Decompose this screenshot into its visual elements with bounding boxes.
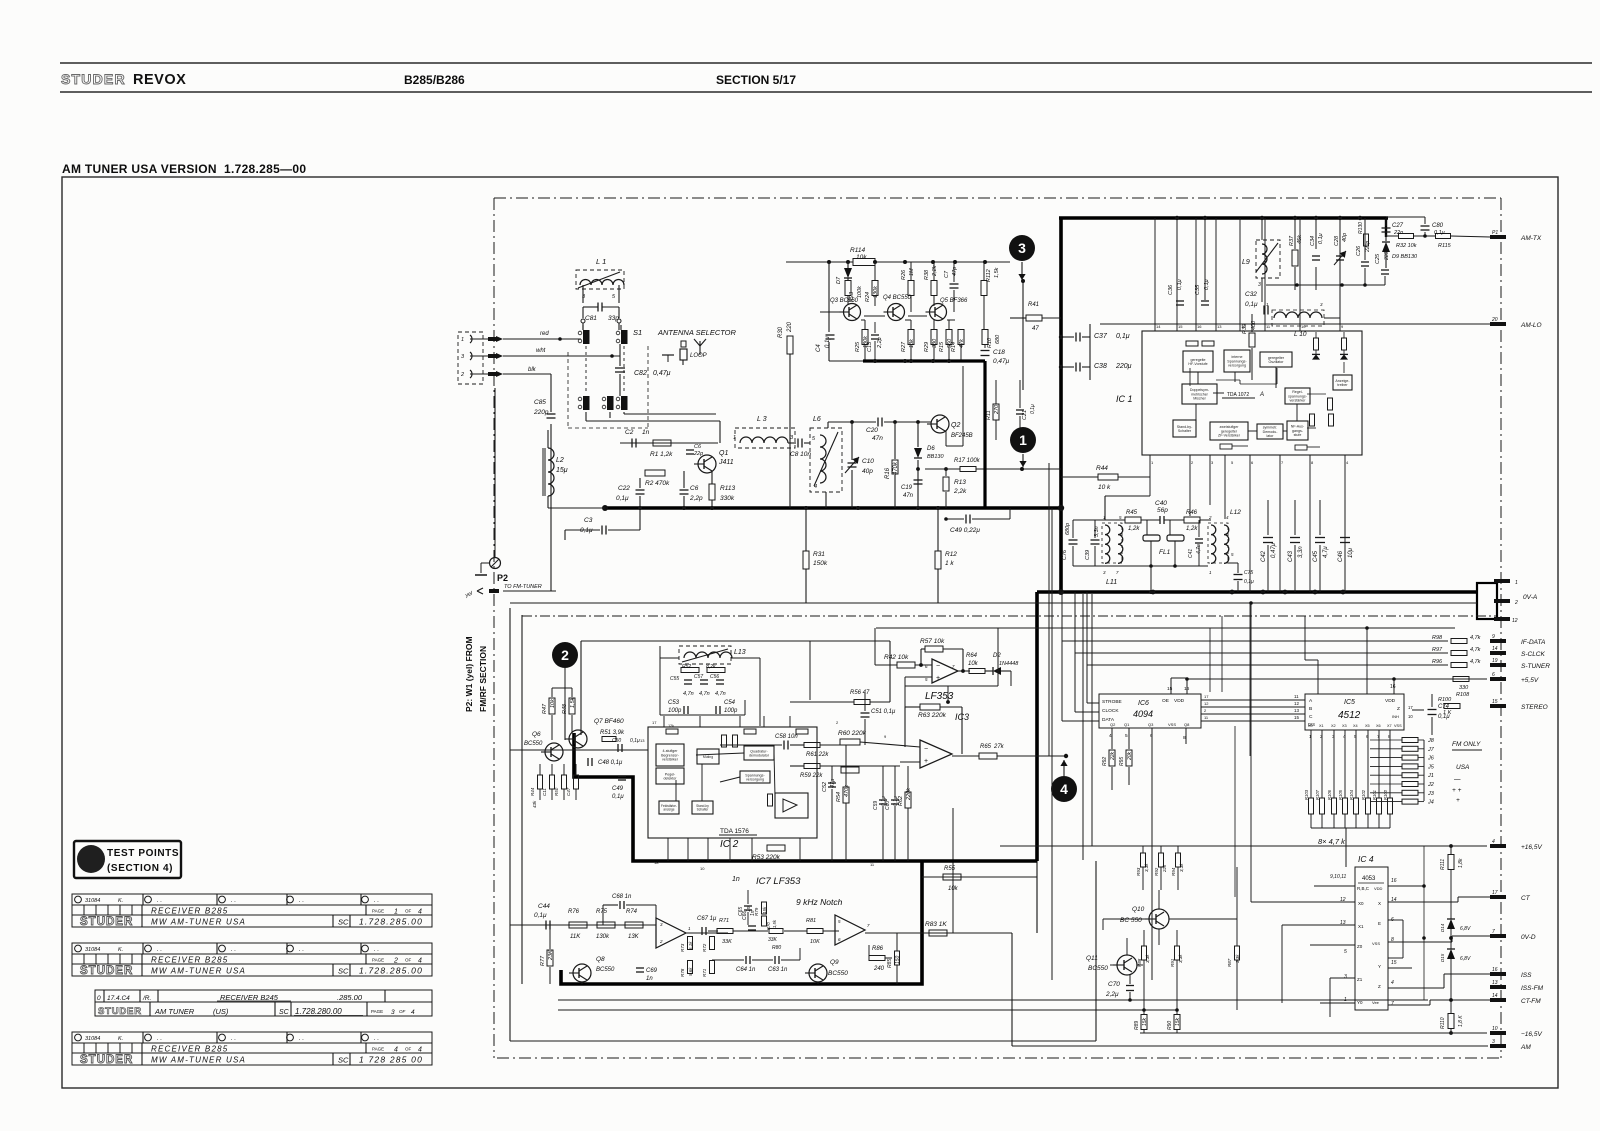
svg-text:4: 4 [418, 1047, 422, 1054]
svg-text:3,3k: 3,3k [1235, 954, 1240, 963]
svg-text:Q2: Q2 [951, 422, 960, 429]
svg-text:Schalter: Schalter [697, 808, 710, 812]
svg-text:P1: P1 [1492, 230, 1498, 236]
svg-text:R53 220k: R53 220k [752, 854, 781, 861]
svg-text:C55: C55 [670, 676, 679, 682]
svg-text:4094: 4094 [1133, 709, 1153, 719]
svg-text:C64 1n: C64 1n [736, 967, 756, 973]
svg-text:3: 3 [1320, 302, 1323, 307]
svg-text:56p: 56p [1157, 507, 1168, 514]
svg-text:4,7n: 4,7n [699, 691, 710, 697]
svg-text:C32: C32 [1245, 291, 1257, 298]
svg-text:3: 3 [1018, 240, 1026, 256]
svg-text:AM TUNER: AM TUNER [154, 1007, 195, 1016]
svg-text:0,1μ: 0,1μ [1030, 404, 1036, 414]
svg-text:FL1: FL1 [1159, 549, 1171, 556]
svg-text:C66: C66 [742, 911, 748, 920]
svg-text:Z: Z [1397, 706, 1400, 712]
svg-text:C22: C22 [618, 485, 630, 492]
svg-text:C56: C56 [710, 674, 719, 680]
svg-text:1: 1 [461, 337, 464, 343]
svg-text:17.4.C4: 17.4.C4 [107, 995, 130, 1002]
svg-text:4: 4 [411, 1009, 415, 1016]
svg-text:BC550: BC550 [1088, 965, 1108, 972]
svg-text:8: 8 [1388, 734, 1391, 739]
svg-text:15k: 15k [1142, 1017, 1148, 1026]
svg-text:R32 10k: R32 10k [1396, 243, 1417, 249]
svg-text:TDA 1072: TDA 1072 [1227, 392, 1249, 398]
svg-text:C: C [1309, 714, 1313, 720]
svg-text:17: 17 [1204, 694, 1209, 699]
svg-text:J1: J1 [1427, 773, 1434, 779]
svg-text:P2: W1 (yel) FROM: P2: W1 (yel) FROM [464, 636, 474, 712]
svg-text:1: 1 [688, 926, 691, 931]
svg-text:red: red [540, 331, 549, 337]
svg-text:C18: C18 [993, 349, 1005, 356]
svg-text:22k: 22k [1162, 864, 1167, 873]
svg-text:L12: L12 [1230, 509, 1241, 516]
svg-text:4,7k: 4,7k [1470, 647, 1481, 653]
svg-text:10 k: 10 k [1098, 484, 1111, 491]
svg-text:7: 7 [867, 923, 870, 928]
svg-text:10k: 10k [856, 254, 867, 261]
svg-text:J8: J8 [1427, 738, 1435, 744]
svg-text:J3: J3 [1427, 791, 1435, 797]
svg-text:11K: 11K [570, 934, 581, 940]
svg-text:X2: X2 [1331, 724, 1336, 728]
svg-text:−16,5V: −16,5V [1521, 1031, 1542, 1038]
svg-text:S-CLCK: S-CLCK [1521, 651, 1546, 658]
svg-text:C28: C28 [1334, 235, 1340, 246]
svg-text:. .: . . [231, 1036, 236, 1042]
svg-text:IC7 LF353: IC7 LF353 [756, 876, 801, 887]
svg-text:P2: P2 [497, 573, 508, 583]
svg-text:C13: C13 [867, 341, 873, 352]
svg-text:13: 13 [640, 738, 645, 743]
svg-text:R54: R54 [836, 792, 842, 802]
svg-text:. .: . . [299, 1036, 304, 1042]
svg-text:13: 13 [1217, 324, 1222, 329]
svg-text:R26: R26 [901, 269, 907, 280]
svg-text:Q8: Q8 [596, 956, 605, 963]
svg-text:STUDER: STUDER [80, 965, 133, 977]
svg-text:AM-LO: AM-LO [1520, 322, 1542, 329]
svg-text:R112: R112 [986, 269, 992, 282]
svg-text:R17 100k: R17 100k [954, 458, 981, 464]
svg-text:OF: OF [405, 909, 412, 914]
svg-text:6: 6 [1492, 672, 1495, 678]
svg-text:4: 4 [394, 1047, 398, 1054]
svg-text:ZF-Verstärker: ZF-Verstärker [1218, 434, 1241, 438]
svg-text:STUDER: STUDER [98, 1006, 142, 1017]
svg-text:Q6: Q6 [532, 731, 541, 738]
svg-text:L2: L2 [556, 457, 564, 464]
svg-text:C36: C36 [1168, 284, 1174, 295]
svg-text:AM-TX: AM-TX [1520, 235, 1542, 242]
svg-text:STEREO: STEREO [1521, 704, 1548, 711]
svg-text:J7: J7 [1427, 747, 1435, 753]
svg-text:1 728 285 00: 1 728 285 00 [359, 1055, 423, 1065]
svg-text:PAGE: PAGE [372, 958, 384, 963]
svg-text:C46: C46 [1338, 550, 1344, 562]
svg-text:2: 2 [836, 720, 839, 725]
svg-text:Muting: Muting [703, 755, 713, 759]
svg-text:Q10: Q10 [1132, 906, 1145, 913]
svg-text:C63 1n: C63 1n [768, 967, 788, 973]
svg-text:R92: R92 [1154, 867, 1159, 876]
svg-text:4: 4 [1343, 734, 1346, 739]
svg-text:R91: R91 [1170, 958, 1175, 967]
svg-text:4053: 4053 [1362, 876, 1376, 882]
svg-text:J6: J6 [1427, 756, 1435, 762]
svg-text:4: 4 [1346, 460, 1349, 465]
svg-text:13k: 13k [909, 339, 915, 348]
svg-text:31084: 31084 [85, 898, 100, 904]
svg-text:C7: C7 [944, 270, 950, 278]
svg-text:HF-Vorstufe: HF-Vorstufe [1188, 362, 1207, 366]
svg-text:BB130: BB130 [927, 454, 944, 460]
svg-text:C38: C38 [1094, 363, 1107, 370]
svg-text:0,1μ: 0,1μ [630, 738, 640, 744]
svg-text:2,2p: 2,2p [689, 495, 703, 502]
svg-text:15k: 15k [1175, 1017, 1181, 1026]
svg-text:R16: R16 [885, 467, 891, 479]
svg-text:R37: R37 [1289, 235, 1295, 246]
svg-text:R73: R73 [680, 943, 685, 952]
svg-text:R65: R65 [980, 744, 992, 750]
svg-text:D9 BB130: D9 BB130 [1392, 254, 1418, 260]
svg-text:C26: C26 [1356, 245, 1362, 256]
svg-text:10μ: 10μ [1348, 547, 1354, 558]
svg-text:R57 10k: R57 10k [920, 638, 945, 645]
svg-text:R102: R102 [1361, 789, 1366, 800]
svg-text:2: 2 [1320, 734, 1323, 739]
svg-text:15: 15 [1294, 715, 1300, 720]
svg-text:—: — [1453, 776, 1461, 783]
svg-text:R11: R11 [986, 410, 992, 420]
svg-text:Schalter: Schalter [1178, 429, 1192, 433]
svg-text:20k: 20k [1127, 751, 1133, 761]
svg-text:3: 3 [790, 435, 794, 441]
svg-text:Q8: Q8 [1184, 722, 1190, 727]
svg-text:5,6k: 5,6k [688, 967, 693, 976]
svg-text:1,2k: 1,2k [1128, 526, 1140, 532]
svg-text:22k: 22k [1110, 751, 1116, 761]
svg-text:R24: R24 [865, 292, 871, 302]
svg-text:CT-FM: CT-FM [1521, 998, 1541, 1005]
svg-text:R90: R90 [1167, 1021, 1173, 1030]
svg-text:R78: R78 [680, 968, 685, 977]
svg-text:Q11: Q11 [1086, 955, 1098, 962]
svg-text:R42 10k: R42 10k [884, 654, 909, 661]
svg-text:100p: 100p [668, 708, 682, 714]
svg-text:versorgung: versorgung [746, 777, 764, 781]
svg-text:1: 1 [1309, 734, 1312, 739]
svg-text:REVOX: REVOX [133, 72, 186, 88]
svg-text:47: 47 [1032, 326, 1039, 332]
svg-text:R113: R113 [720, 485, 735, 492]
svg-text:TEST POINTS: TEST POINTS [107, 848, 179, 859]
svg-text:Q2: Q2 [1110, 722, 1116, 727]
svg-text:1,5k: 1,5k [994, 267, 1000, 278]
svg-text:6: 6 [1251, 460, 1254, 465]
svg-text:4: 4 [1391, 980, 1394, 986]
svg-text:BC550: BC550 [524, 741, 543, 747]
svg-text:OF: OF [399, 1009, 406, 1014]
svg-text:R55: R55 [944, 866, 956, 872]
svg-text:R50: R50 [554, 787, 559, 796]
svg-text:1.728.285.00: 1.728.285.00 [359, 917, 423, 927]
svg-text:R98: R98 [1432, 635, 1443, 641]
svg-text:Z: Z [1378, 984, 1381, 989]
svg-text:K.: K. [118, 898, 123, 904]
svg-text:5,1k: 5,1k [688, 941, 693, 950]
svg-text:R95: R95 [1119, 757, 1125, 766]
svg-text:0,1μ: 0,1μ [1434, 230, 1445, 236]
svg-text:10: 10 [1408, 714, 1413, 719]
svg-text:USA: USA [1456, 764, 1469, 771]
svg-text:C49 0,22μ: C49 0,22μ [950, 527, 980, 534]
svg-text:13: 13 [1492, 980, 1498, 986]
svg-text:33p: 33p [608, 315, 619, 322]
svg-text:MW AM-TUNER USA: MW AM-TUNER USA [151, 1056, 246, 1065]
svg-text:(US): (US) [213, 1007, 229, 1016]
svg-text:2,2k: 2,2k [932, 265, 938, 277]
svg-text:2: 2 [659, 939, 663, 944]
svg-text:C45: C45 [1313, 550, 1319, 562]
svg-text:1n: 1n [646, 976, 653, 982]
svg-text:R89: R89 [1134, 1021, 1140, 1030]
svg-text:2: 2 [1204, 708, 1207, 713]
svg-text:R83 1K: R83 1K [925, 921, 947, 928]
svg-text:9: 9 [1341, 324, 1344, 329]
svg-text:FM ONLY: FM ONLY [1452, 741, 1481, 748]
svg-text:Q3 BC560: Q3 BC560 [830, 298, 859, 304]
svg-text:A: A [1309, 698, 1313, 704]
svg-text:R87: R87 [1227, 958, 1232, 967]
svg-text:RECEIVER B285: RECEIVER B285 [151, 907, 228, 916]
svg-text:13K: 13K [628, 934, 640, 940]
svg-text:+: + [1456, 797, 1460, 804]
svg-text:OF: OF [405, 1047, 412, 1052]
svg-text:R114: R114 [850, 247, 865, 254]
svg-text:12: 12 [1294, 701, 1300, 706]
svg-text:47n: 47n [903, 493, 914, 499]
svg-text:R15: R15 [939, 341, 945, 352]
svg-text:yel: yel [464, 591, 474, 600]
svg-text:D15: D15 [1440, 953, 1445, 962]
svg-text:4: 4 [814, 484, 817, 490]
svg-text:330: 330 [1459, 685, 1469, 691]
svg-text:E: E [1378, 921, 1381, 926]
svg-text:VDD: VDD [1174, 698, 1185, 704]
svg-text:12: 12 [1512, 618, 1518, 624]
svg-text:9,10,11: 9,10,11 [1330, 874, 1347, 880]
svg-text:PAGE: PAGE [372, 1047, 384, 1052]
svg-text:X: X [1378, 901, 1381, 906]
svg-text:14: 14 [1492, 993, 1498, 999]
svg-text:R14: R14 [951, 342, 957, 352]
svg-text:C27: C27 [1392, 223, 1404, 229]
svg-text:R56 47: R56 47 [850, 690, 870, 696]
svg-text:versorgung: versorgung [1228, 364, 1246, 368]
svg-text:27k: 27k [993, 744, 1005, 750]
svg-text:MW AM-TUNER USA: MW AM-TUNER USA [151, 918, 246, 927]
svg-text:stufe: stufe [1294, 433, 1302, 437]
svg-text:C57: C57 [694, 674, 703, 680]
svg-text:X0: X0 [1308, 724, 1313, 728]
svg-text:3: 3 [461, 354, 465, 360]
svg-text:wht: wht [536, 348, 546, 354]
svg-text:C20: C20 [866, 427, 878, 434]
svg-text:R93: R93 [1136, 867, 1141, 876]
svg-text:VDD: VDD [1385, 698, 1396, 704]
svg-text:47p: 47p [952, 267, 958, 276]
svg-text:1.728.285.00: 1.728.285.00 [359, 966, 423, 976]
svg-text:BC 550: BC 550 [1120, 917, 1142, 924]
svg-text:RECEIVER B285: RECEIVER B285 [151, 1045, 228, 1054]
svg-text:R74: R74 [626, 909, 638, 915]
svg-text:19: 19 [1492, 658, 1498, 664]
svg-text:10: 10 [1301, 324, 1306, 329]
svg-text:5: 5 [812, 436, 816, 442]
svg-text:C53: C53 [668, 700, 680, 706]
svg-text:Oszillator: Oszillator [1269, 360, 1285, 364]
svg-text:detektor: detektor [664, 776, 678, 780]
svg-text:R44: R44 [530, 787, 535, 796]
svg-text:STROBE: STROBE [1102, 699, 1122, 705]
svg-text:SC: SC [338, 1056, 349, 1065]
svg-text:Q5 BF366: Q5 BF366 [940, 298, 968, 304]
svg-text:R38: R38 [924, 269, 930, 280]
svg-text:.285.00: .285.00 [337, 993, 363, 1002]
svg-text:R71: R71 [719, 918, 729, 924]
svg-text:R52: R52 [682, 664, 691, 670]
svg-text:R76: R76 [568, 909, 580, 915]
svg-text:0,1μ: 0,1μ [1438, 714, 1450, 720]
svg-text:SC: SC [338, 918, 349, 927]
svg-text:3,3k: 3,3k [1145, 954, 1150, 963]
svg-text:1.728.280.00: 1.728.280.00 [295, 1007, 342, 1016]
svg-text:X3: X3 [1342, 724, 1347, 728]
svg-text:3: 3 [1492, 1039, 1495, 1045]
svg-text:R29: R29 [924, 342, 930, 352]
svg-text:PAGE: PAGE [372, 909, 384, 914]
svg-text:15μ: 15μ [556, 467, 568, 474]
svg-text:BF245B: BF245B [951, 433, 973, 439]
svg-text:5: 5 [838, 919, 841, 924]
svg-text:D14: D14 [1440, 923, 1445, 932]
svg-text:2: 2 [1514, 600, 1518, 606]
svg-text:. .: . . [157, 1036, 162, 1042]
svg-text:2,2μ: 2,2μ [1105, 991, 1119, 998]
svg-text:C2: C2 [625, 429, 634, 436]
svg-text:LOOP: LOOP [690, 353, 707, 359]
svg-text:X0: X0 [1358, 901, 1364, 906]
svg-text:R10: R10 [987, 337, 993, 348]
svg-text:0: 0 [97, 995, 101, 1002]
svg-text:0,1μ: 0,1μ [825, 336, 831, 348]
svg-text:1: 1 [1103, 515, 1106, 520]
svg-text:240: 240 [873, 966, 885, 972]
svg-text:R80: R80 [772, 945, 781, 951]
svg-text:C21: C21 [1022, 410, 1028, 420]
svg-text:. .: . . [374, 1036, 379, 1042]
svg-text:2,2k: 2,2k [953, 488, 967, 495]
svg-text:R77: R77 [540, 955, 546, 966]
svg-text:L 3: L 3 [757, 416, 767, 423]
svg-text:C81: C81 [585, 315, 597, 322]
svg-text:3,3k: 3,3k [1144, 863, 1149, 872]
svg-text:0,1μ: 0,1μ [534, 912, 547, 919]
svg-text:1: 1 [394, 909, 398, 916]
svg-text:10k: 10k [948, 886, 959, 892]
svg-text:18: 18 [654, 860, 659, 865]
svg-text:OF: OF [405, 958, 412, 963]
svg-text:6,8V: 6,8V [1460, 926, 1471, 932]
svg-text:R94: R94 [1171, 867, 1176, 876]
svg-text:C40: C40 [1155, 500, 1167, 507]
svg-text:C50: C50 [612, 738, 621, 744]
svg-text:. .: . . [231, 947, 236, 953]
svg-text:1: 1 [1515, 580, 1518, 586]
svg-text:+16,5V: +16,5V [1521, 844, 1542, 851]
svg-text:3: 3 [391, 1009, 395, 1016]
svg-text:R79: R79 [754, 907, 759, 916]
svg-text:blk: blk [528, 367, 537, 373]
svg-text:C48 0,1μ: C48 0,1μ [598, 760, 623, 766]
svg-text:R86: R86 [872, 946, 884, 952]
svg-text:C70: C70 [1108, 981, 1120, 988]
svg-text:6: 6 [1366, 734, 1369, 739]
svg-text:1: 1 [1209, 570, 1212, 575]
svg-text:16: 16 [1197, 324, 1202, 329]
svg-text:Q9: Q9 [830, 959, 839, 966]
svg-text:R63 220k: R63 220k [918, 712, 947, 719]
svg-text:3: 3 [1344, 974, 1347, 980]
svg-text:1,8k: 1,8k [1458, 858, 1464, 868]
svg-text:R60 220k: R60 220k [838, 730, 867, 737]
svg-text:4: 4 [418, 909, 422, 916]
svg-text:Q4 BC550: Q4 BC550 [883, 295, 912, 301]
svg-text:1N4448: 1N4448 [999, 661, 1019, 667]
svg-text:R97: R97 [1432, 647, 1443, 653]
svg-text:C34: C34 [1310, 236, 1316, 246]
svg-text:0V-D: 0V-D [1521, 934, 1536, 941]
svg-text:C74: C74 [1438, 704, 1450, 710]
svg-text:15k: 15k [762, 906, 767, 914]
svg-text:R12: R12 [945, 551, 957, 558]
svg-text:lator: lator [1267, 434, 1275, 438]
svg-text:X7: X7 [1387, 724, 1392, 728]
svg-text:X1: X1 [1319, 724, 1324, 728]
svg-text:220p: 220p [533, 409, 549, 416]
svg-text:R2 470k: R2 470k [645, 480, 670, 487]
svg-text:13: 13 [1294, 708, 1300, 713]
svg-text:demodulator: demodulator [749, 753, 770, 757]
svg-text:16: 16 [1492, 967, 1498, 973]
svg-text:0,1μ: 0,1μ [1116, 333, 1130, 340]
svg-text:CT: CT [1521, 895, 1531, 902]
svg-text:VDD: VDD [1374, 886, 1383, 891]
svg-text:3: 3 [660, 922, 663, 927]
svg-text:C76: C76 [1062, 549, 1068, 560]
svg-text:(SECTION 4): (SECTION 4) [107, 863, 173, 874]
svg-text:270: 270 [994, 404, 1000, 415]
svg-text:12: 12 [1204, 701, 1209, 706]
svg-text:+5,5V: +5,5V [1521, 677, 1539, 684]
svg-text:AM: AM [1520, 1044, 1531, 1051]
